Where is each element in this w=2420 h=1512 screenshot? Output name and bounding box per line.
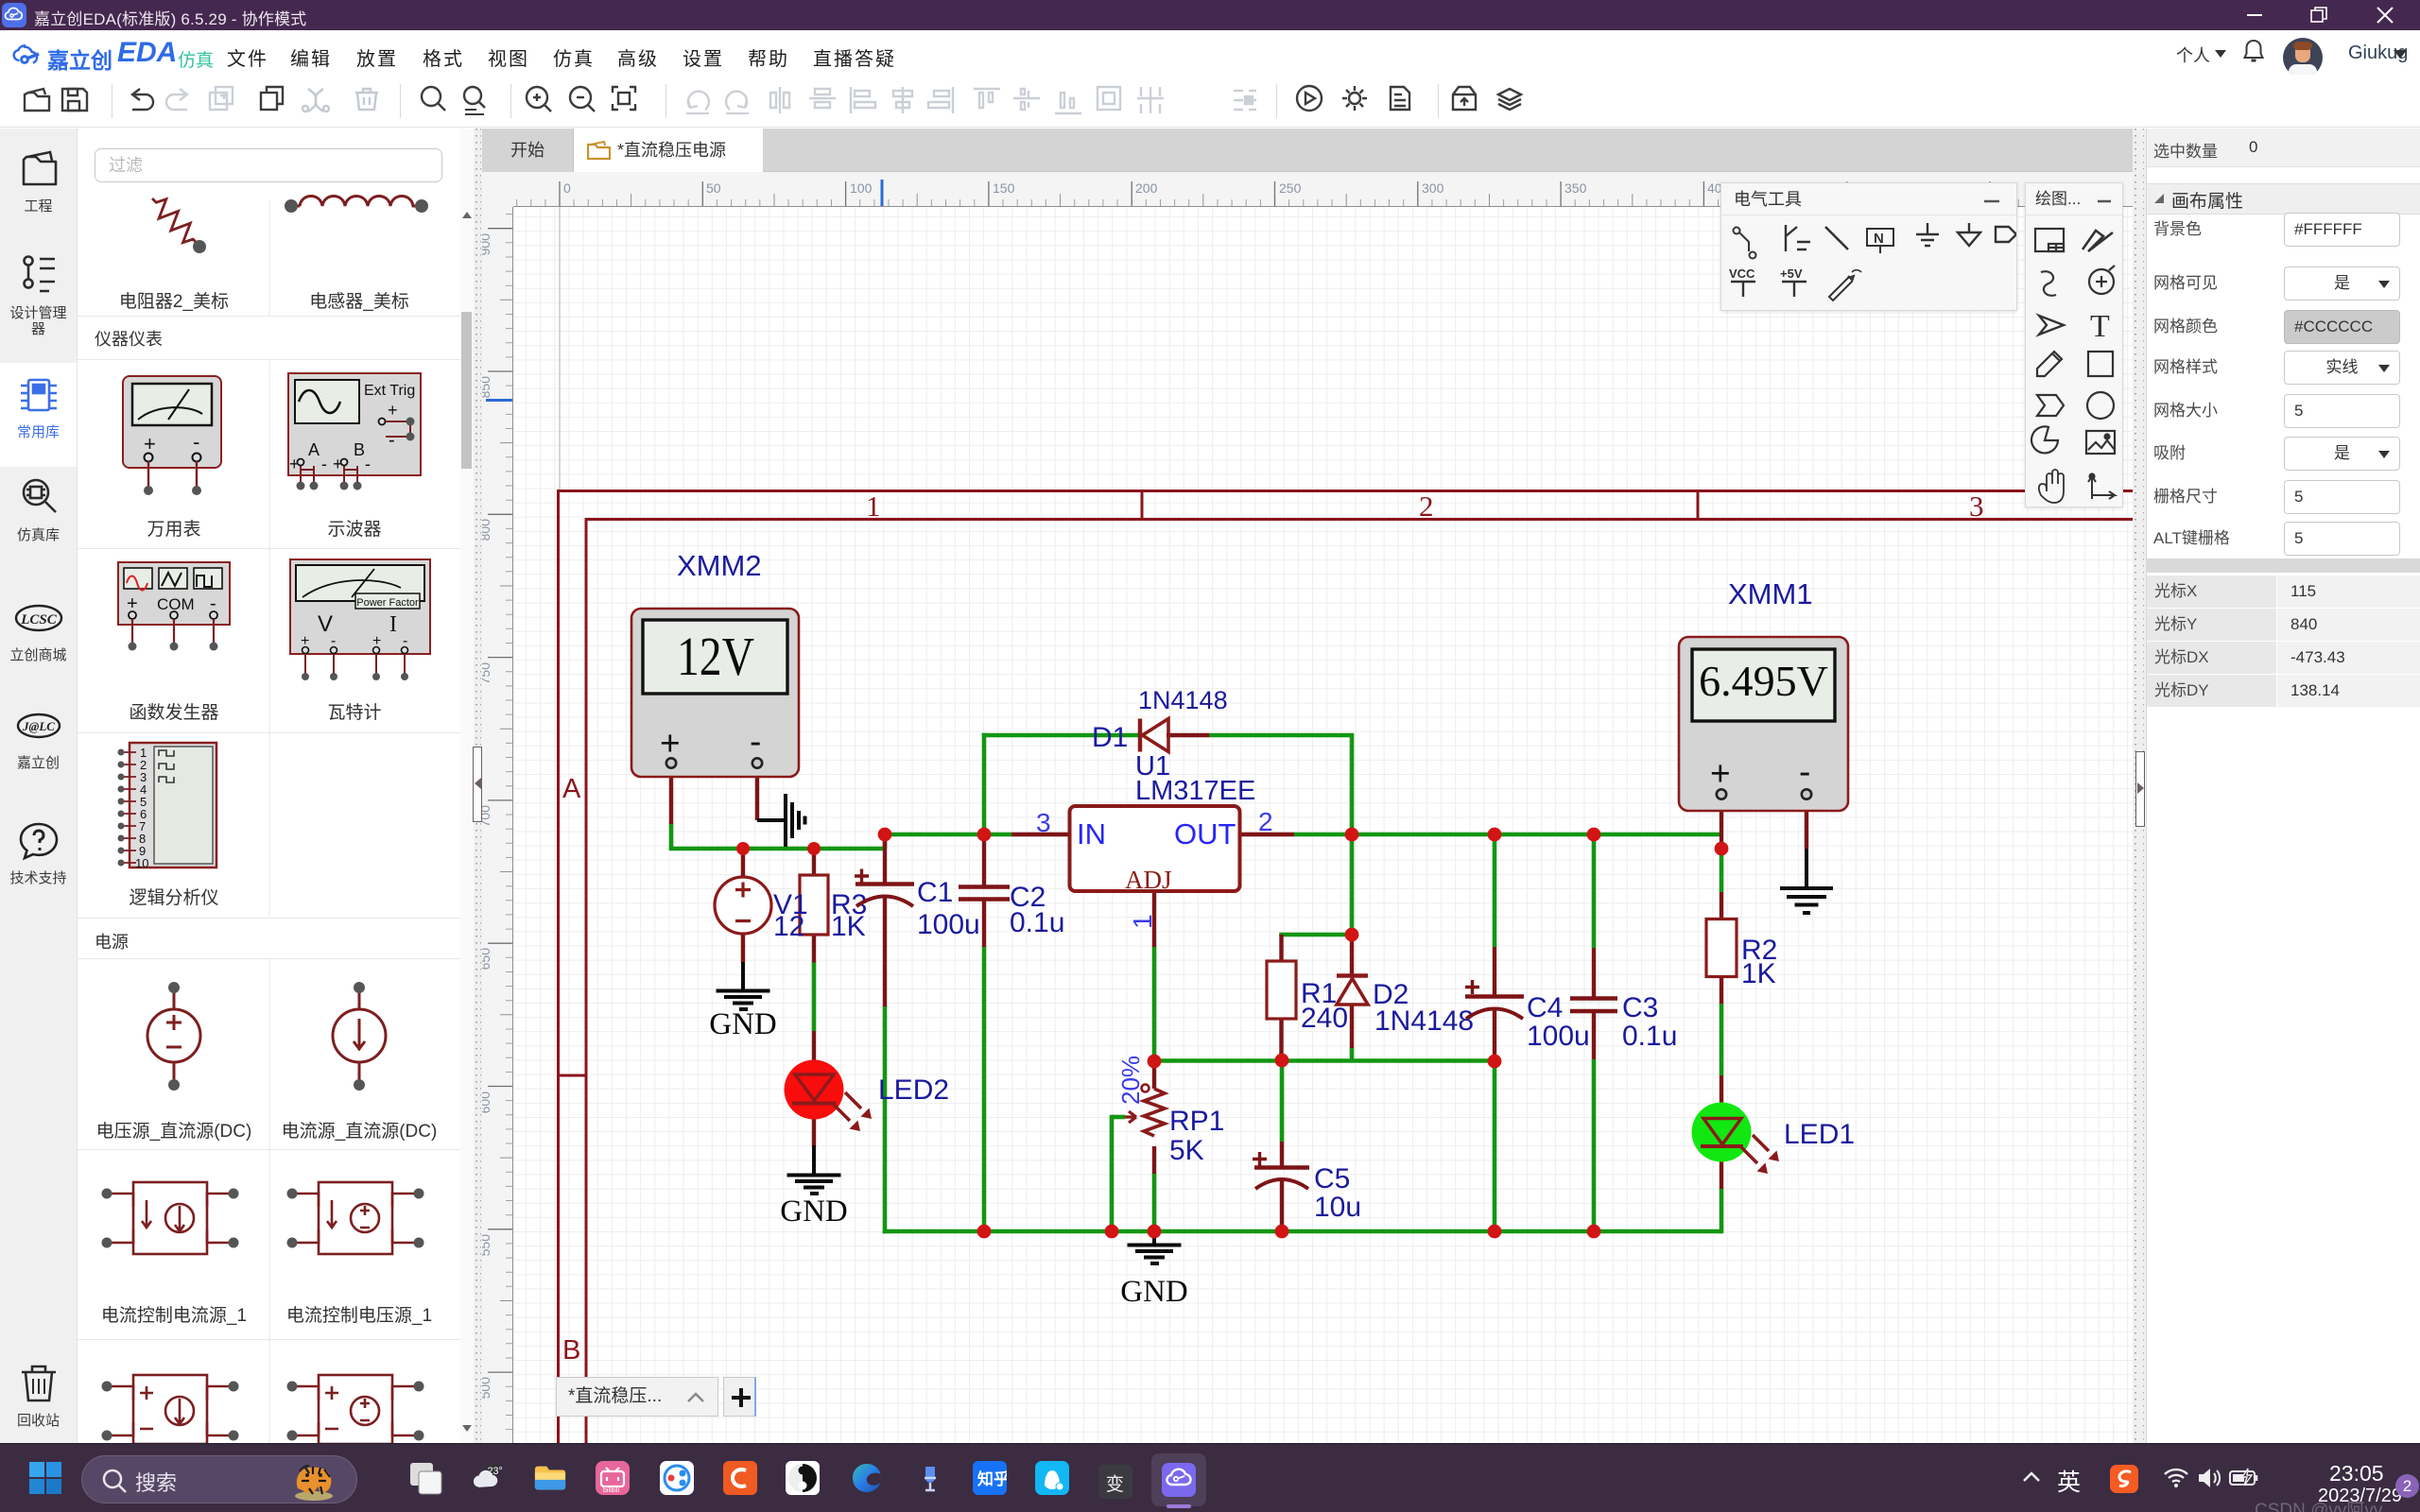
library preview: multimeter (123, 376, 221, 495)
wire: V1 top stub (741, 849, 745, 878)
wire: ADJ net horizontal to C4 (1154, 1058, 1495, 1063)
library preview: function generator (118, 562, 230, 651)
label R2 1K (1741, 935, 1777, 989)
svg-text:电源: 电源 (95, 933, 129, 952)
svg-text:J@LC: J@LC (22, 719, 55, 733)
junction: wiper rail node (1105, 1225, 1119, 1239)
wire: D2 cathode lead (1350, 935, 1354, 977)
multimeter XMM2 (631, 609, 799, 777)
junction: ADJ/RP1 node (1148, 1055, 1162, 1069)
wire: LM317 ADJ pin stub (1152, 891, 1156, 947)
svg-text:IN: IN (1077, 817, 1106, 850)
svg-text:D1: D1 (1092, 722, 1128, 753)
junction: C4 top node (1488, 828, 1502, 842)
svg-text:C4: C4 (1527, 992, 1563, 1023)
sheet zone labels (562, 490, 1984, 1366)
svg-text:瓦特计: 瓦特计 (327, 702, 381, 723)
library preview: CCCS (107, 1182, 233, 1254)
svg-text:变: 变 (1106, 1474, 1124, 1495)
svg-text:5K: 5K (1169, 1135, 1204, 1166)
wire: D2 anode lead (1350, 1004, 1354, 1048)
wire: OUT node down to R1/D2 node (1350, 834, 1355, 935)
wire: R3 bottom stub (812, 935, 816, 963)
wire: R2 top stub (1720, 892, 1723, 919)
label C4 100u (1527, 992, 1590, 1052)
svg-text:100u: 100u (917, 909, 980, 940)
wire: XMM1 plus node to R2 (green) (1720, 849, 1724, 892)
wire: C4 top stub (1493, 947, 1496, 995)
junction: R1/D2 top node (1345, 928, 1359, 942)
label R1 240 (1301, 978, 1348, 1034)
wire: R1 top stub (1279, 935, 1283, 961)
dark red pin stub wires (671, 735, 1806, 1231)
resistor R1 (1267, 961, 1296, 1019)
wire: R2 to LED1 (green) (1720, 1003, 1724, 1075)
junction: C3 top node (1587, 828, 1601, 842)
svg-text:600: 600 (482, 1091, 493, 1114)
wire: RP1 wiper stub (green part) (1112, 1115, 1125, 1120)
svg-text:A: A (308, 440, 320, 459)
svg-text:1N4148: 1N4148 (1374, 1005, 1474, 1037)
wire: D1 anode lead (1167, 733, 1209, 737)
svg-text:850: 850 (482, 376, 493, 399)
label RP1 5K (1169, 1106, 1224, 1166)
svg-text:电流源_直流源(DC): 电流源_直流源(DC) (282, 1121, 438, 1142)
diode D1 (1140, 719, 1168, 752)
svg-text:10u: 10u (1314, 1192, 1361, 1223)
label C2 0.1u (1010, 882, 1064, 938)
left gutter (474, 129, 482, 1444)
svg-text:C3: C3 (1622, 992, 1658, 1023)
wire: LED1 bottom stub (1720, 1146, 1723, 1189)
svg-text:+: + (660, 724, 681, 763)
multimeter XMM1 (1679, 637, 1848, 811)
svg-text:N: N (1874, 231, 1884, 247)
svg-text:-: - (1799, 752, 1810, 791)
svg-text:GND: GND (709, 1007, 777, 1041)
wire: RP1 top lead (1152, 1061, 1156, 1089)
wire: C2 bottom stub (982, 900, 986, 947)
wire: C4 below-arc stub (1493, 1007, 1496, 1061)
wire: R1 top horizontal (1282, 933, 1353, 935)
capacitor C3 (1570, 999, 1617, 1012)
svg-text:T: T (2090, 309, 2110, 344)
junction: R1/D2 bottom node (1275, 1054, 1289, 1068)
wire: LM317 OUT pin stub (1239, 833, 1294, 836)
label V1 12 (773, 889, 808, 942)
svg-text:300: 300 (1422, 180, 1444, 196)
wire: input bus left segment (669, 847, 885, 851)
svg-text:+: + (388, 401, 398, 420)
svg-text:B: B (354, 440, 365, 459)
svg-text:电阻器2_美标: 电阻器2_美标 (119, 291, 229, 312)
svg-text:900: 900 (482, 233, 493, 256)
svg-text:2: 2 (1258, 807, 1273, 836)
svg-text:650: 650 (482, 948, 493, 971)
svg-text:1K: 1K (1741, 958, 1776, 989)
svg-text:3: 3 (1969, 490, 1984, 523)
capacitor C1 (855, 869, 914, 907)
op-amp/regulator U1 LM317 (1070, 806, 1240, 891)
wire: XMM1 minus pin stub (1805, 800, 1808, 849)
svg-text:-: - (750, 722, 761, 761)
svg-text:逻辑分析仪: 逻辑分析仪 (129, 887, 218, 908)
wire: output bus from OUT to XMM1/R2 (1294, 833, 1721, 837)
resistor R3 (800, 875, 828, 935)
svg-text:1: 1 (1128, 914, 1157, 929)
wire: bus jog up at C1 column (883, 834, 888, 849)
capacitor C5 (1253, 1152, 1309, 1189)
wire: RP1 bottom lead (1152, 1146, 1156, 1174)
library preview: wattmeter (290, 559, 430, 680)
ground GND (below LED2) (787, 1145, 841, 1194)
svg-text:GND: GND (1120, 1275, 1188, 1309)
wire: C4 upper lead (green) (1493, 834, 1497, 947)
svg-text:10: 10 (135, 856, 148, 870)
library preview: CCVS (292, 1182, 419, 1254)
wire: C5 bottom stub (1280, 1178, 1284, 1231)
svg-text:500: 500 (482, 1377, 493, 1400)
svg-text:LM317EE: LM317EE (1135, 776, 1255, 806)
svg-text:LED2: LED2 (878, 1074, 949, 1106)
svg-text:550: 550 (482, 1234, 493, 1257)
svg-text:750: 750 (482, 662, 493, 685)
label C3 0.1u (1622, 992, 1677, 1052)
potentiometer RP1 (1125, 1085, 1165, 1137)
wire: LED2 bottom stub (812, 1103, 816, 1147)
svg-text:12V: 12V (677, 626, 754, 687)
junction: V1 top node (736, 842, 750, 855)
svg-text:A: A (562, 774, 581, 804)
capacitor C2 (959, 887, 1010, 900)
svg-text:+5V: +5V (1780, 266, 1803, 281)
junction: C2 rail node (977, 1225, 992, 1239)
svg-text:电感器_美标: 电感器_美标 (309, 291, 409, 312)
svg-text:20%: 20% (1116, 1056, 1145, 1105)
wire: R2 bottom stub (1720, 976, 1723, 1004)
svg-text:RP1: RP1 (1169, 1106, 1224, 1137)
svg-text:700: 700 (482, 805, 493, 828)
wire: C1 lower lead (green) (883, 1005, 888, 1233)
wire: C5 top stub (1280, 1142, 1284, 1166)
junction: XMM1 plus node (1715, 842, 1729, 856)
library preview: logic analyzer (118, 743, 217, 870)
svg-text:0.1u: 0.1u (1622, 1021, 1677, 1052)
svg-text:-: - (389, 430, 395, 451)
diode D2 (1337, 976, 1368, 1005)
bottom sheet tab widget (556, 1377, 718, 1417)
svg-text:-: - (321, 455, 327, 473)
svg-text:1: 1 (866, 490, 881, 523)
sheet column divider ticks (1142, 491, 1698, 520)
wire: ADJ net vertical (green part) (1152, 946, 1157, 1061)
sheet frame outer border (559, 491, 2134, 1444)
wire: C1 below-arc stub (883, 895, 887, 1006)
label C1 100u (917, 877, 980, 940)
svg-text:bilibili: bilibili (603, 1487, 620, 1494)
svg-text:XMM2: XMM2 (677, 549, 762, 582)
library preview: oscilloscope (288, 373, 421, 490)
svg-text:I: I (389, 612, 397, 637)
wire: V1 bottom stub (741, 934, 745, 963)
wire: C4 lower lead (green) (1493, 1061, 1497, 1231)
junction: RP1 rail node (1148, 1225, 1162, 1239)
svg-text:Power Factor: Power Factor (356, 597, 419, 609)
svg-text:-: - (193, 430, 199, 454)
svg-text:万用表: 万用表 (147, 519, 200, 540)
grid lines (78, 201, 460, 1444)
wire: D1 right riser to OUT node (1350, 735, 1355, 834)
svg-text:100u: 100u (1527, 1021, 1590, 1052)
canvas y-axis line (559, 207, 561, 490)
wire: R1 bottom stub (1279, 1019, 1283, 1060)
wire: XMM1 plus pin stub (1720, 800, 1723, 849)
ground GND (below V1) (717, 962, 770, 1009)
label R3 1K (831, 889, 867, 942)
svg-text:Ext Trig: Ext Trig (364, 383, 415, 399)
wire: R3 top stub (812, 849, 816, 875)
svg-text:240: 240 (1301, 1003, 1348, 1034)
library preview: inductor US (288, 197, 424, 207)
svg-text:350: 350 (1564, 180, 1587, 196)
svg-text:1N4148: 1N4148 (1138, 686, 1228, 714)
wire: XMM2 plus lead lower (green) (669, 823, 674, 849)
svg-text:2: 2 (1419, 490, 1434, 523)
svg-text:800: 800 (482, 519, 493, 541)
svg-text:0: 0 (563, 180, 571, 196)
wire: D1 left riser (982, 733, 987, 834)
wire: C1 top stub (883, 834, 887, 883)
svg-text:电压源_直流源(DC): 电压源_直流源(DC) (96, 1121, 252, 1142)
wire: C5 upper lead (green) (1280, 1060, 1285, 1142)
svg-text:150: 150 (993, 180, 1015, 196)
svg-text:-: - (365, 455, 371, 473)
svg-text:知乎: 知乎 (977, 1469, 1007, 1488)
svg-text:VCC: VCC (1729, 266, 1755, 281)
library preview: DC voltage source (147, 988, 200, 1084)
wire: C2 lower lead (green) (982, 946, 987, 1231)
resistor R2 (1706, 919, 1737, 977)
svg-text:6.495V: 6.495V (1699, 657, 1828, 705)
svg-text:50: 50 (706, 180, 721, 196)
svg-text:XMM1: XMM1 (1728, 577, 1813, 610)
wire: LED1 bottom lead (green) (1720, 1188, 1724, 1233)
wire: input bus right segment to LM317 IN (885, 833, 1011, 837)
wire: LM317 IN pin stub (1011, 833, 1069, 836)
wire: XMM2 plus pin stub (669, 768, 673, 824)
svg-text:200: 200 (1135, 180, 1158, 196)
ground GND (bottom rail) (1128, 1231, 1182, 1263)
wire: D2 bottom jog (1350, 1047, 1355, 1060)
sheet row divider tick (559, 1074, 587, 1077)
svg-text:COM: COM (157, 595, 195, 613)
svg-text:LCSC: LCSC (20, 612, 58, 627)
wire: XMM2 minus pin stub (755, 768, 759, 820)
svg-text:函数发生器: 函数发生器 (129, 702, 218, 723)
svg-text:OUT: OUT (1174, 817, 1236, 850)
left panel scrollbar (460, 129, 474, 1444)
wire: C3 bottom stub (1592, 1011, 1596, 1059)
svg-text:C5: C5 (1314, 1163, 1350, 1194)
library preview row 7 partial (107, 1375, 233, 1444)
svg-text:3: 3 (1036, 808, 1051, 837)
svg-text:1K: 1K (831, 911, 866, 942)
label C5 10u (1314, 1163, 1361, 1223)
svg-text:+: + (1710, 754, 1731, 793)
svg-text:LED1: LED1 (1784, 1119, 1855, 1150)
junction: R3 top node (807, 842, 821, 855)
svg-text:250: 250 (1279, 180, 1302, 196)
wire: bottom ground rail (883, 1229, 1721, 1234)
capacitor C4 (1465, 980, 1524, 1019)
wire: C3 top stub (1592, 948, 1596, 997)
svg-text:C1: C1 (917, 877, 953, 908)
junction: C2/D1 node (977, 828, 992, 842)
svg-text:12: 12 (773, 911, 804, 942)
svg-text:仪器仪表: 仪器仪表 (95, 330, 163, 349)
earth ground (XMM1 minus) (1780, 849, 1833, 913)
earth ground (XMM2 minus) (757, 794, 805, 847)
svg-text:B: B (562, 1335, 580, 1366)
LED LED1 (green) (1692, 1103, 1780, 1175)
svg-text:+: + (144, 432, 156, 455)
LED LED2 (red) (785, 1060, 873, 1132)
library preview: DC current source (333, 988, 386, 1084)
svg-text:电流控制电压源_1: 电流控制电压源_1 (286, 1305, 432, 1326)
junction: OUT node (1345, 828, 1359, 842)
wire: C2 top stub (982, 834, 986, 885)
svg-text:示波器: 示波器 (327, 519, 381, 540)
wire: LED2 top stub (812, 1031, 816, 1075)
junction: C5 rail node (1275, 1225, 1289, 1239)
svg-text:0.1u: 0.1u (1010, 907, 1064, 938)
svg-text:100: 100 (850, 180, 873, 196)
sheet frame inner border (586, 520, 2133, 1444)
wire: R3 lower lead (green) (812, 961, 817, 1031)
right gutter (2133, 129, 2146, 1444)
junction: C3 rail node (1587, 1225, 1601, 1239)
wire: C3 upper lead (green) (1592, 834, 1597, 948)
junction: C4 rail node (1488, 1225, 1502, 1239)
svg-text:GND: GND (780, 1194, 848, 1228)
wire: D1 top left segment (982, 733, 1140, 738)
svg-text:电流控制电流源_1: 电流控制电流源_1 (101, 1305, 247, 1326)
junction: C1 top node (878, 828, 892, 842)
wire: LED1 top stub (1720, 1075, 1723, 1119)
wire: RP1 wiper riser (1110, 1115, 1115, 1231)
junction: C4 mid node (1488, 1055, 1502, 1069)
svg-text:ADJ: ADJ (1125, 866, 1172, 894)
wire: D1 top right segment (1209, 733, 1354, 738)
voltage source V1 (715, 877, 771, 934)
library preview: resistor US (146, 192, 204, 250)
wire: RP1 bottom lead (green) (1152, 1173, 1157, 1231)
wire: C3 lower lead (green) (1592, 1059, 1597, 1231)
